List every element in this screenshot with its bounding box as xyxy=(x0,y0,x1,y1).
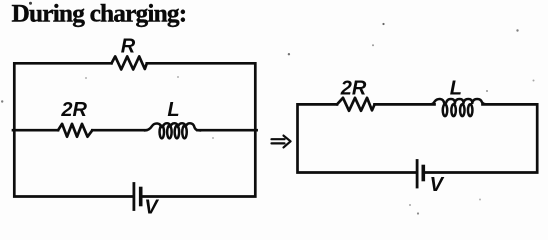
svg-text:V: V xyxy=(430,174,445,196)
inductor L (right circuit) xyxy=(431,99,486,116)
battery V (left circuit): short plate xyxy=(139,189,143,205)
wire: middle branch right segment xyxy=(198,129,257,132)
svg-text:2R: 2R xyxy=(60,99,87,121)
wire: middle branch left segment xyxy=(13,129,58,132)
resistor 2R (left circuit, middle branch) xyxy=(58,124,92,137)
svg-text:L: L xyxy=(450,78,462,100)
inductor L (left circuit, middle branch) xyxy=(145,123,201,138)
battery V (right circuit): long plate xyxy=(416,161,419,188)
wire: middle branch centre segment xyxy=(92,129,146,132)
wire: right circuit top-right + right edge + bottom-right segments xyxy=(425,104,537,172)
wire: left circuit top-right + right edge + bottom-right segments xyxy=(142,63,255,196)
resistor 2R (right circuit) xyxy=(337,98,375,111)
arrow: double-shaft implies arrow between circuits xyxy=(272,136,291,148)
wire: right circuit top-middle segment xyxy=(375,103,435,106)
battery V (right circuit): short plate xyxy=(421,167,425,180)
svg-text:2R: 2R xyxy=(340,77,367,99)
svg-text:During charging:: During charging: xyxy=(12,0,187,28)
svg-text:L: L xyxy=(167,99,179,121)
svg-text:R: R xyxy=(121,35,136,57)
battery V (left circuit): long plate xyxy=(132,184,135,210)
svg-text:V: V xyxy=(144,197,159,219)
resistor R (left circuit, top branch) xyxy=(112,56,147,69)
wire: left circuit top-left + left edge + bottom-left segments xyxy=(14,63,132,196)
wire: right circuit top-left + left edge + bottom-left segments xyxy=(298,104,416,172)
